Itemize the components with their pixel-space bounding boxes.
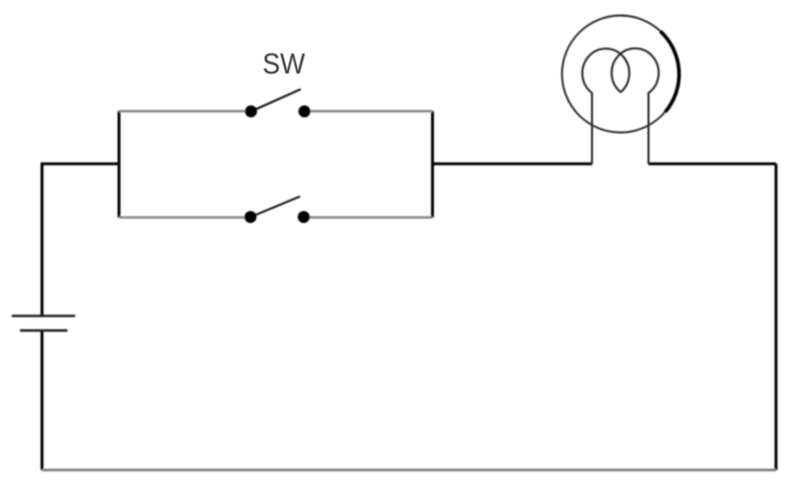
svg-text:SW: SW bbox=[263, 49, 306, 81]
